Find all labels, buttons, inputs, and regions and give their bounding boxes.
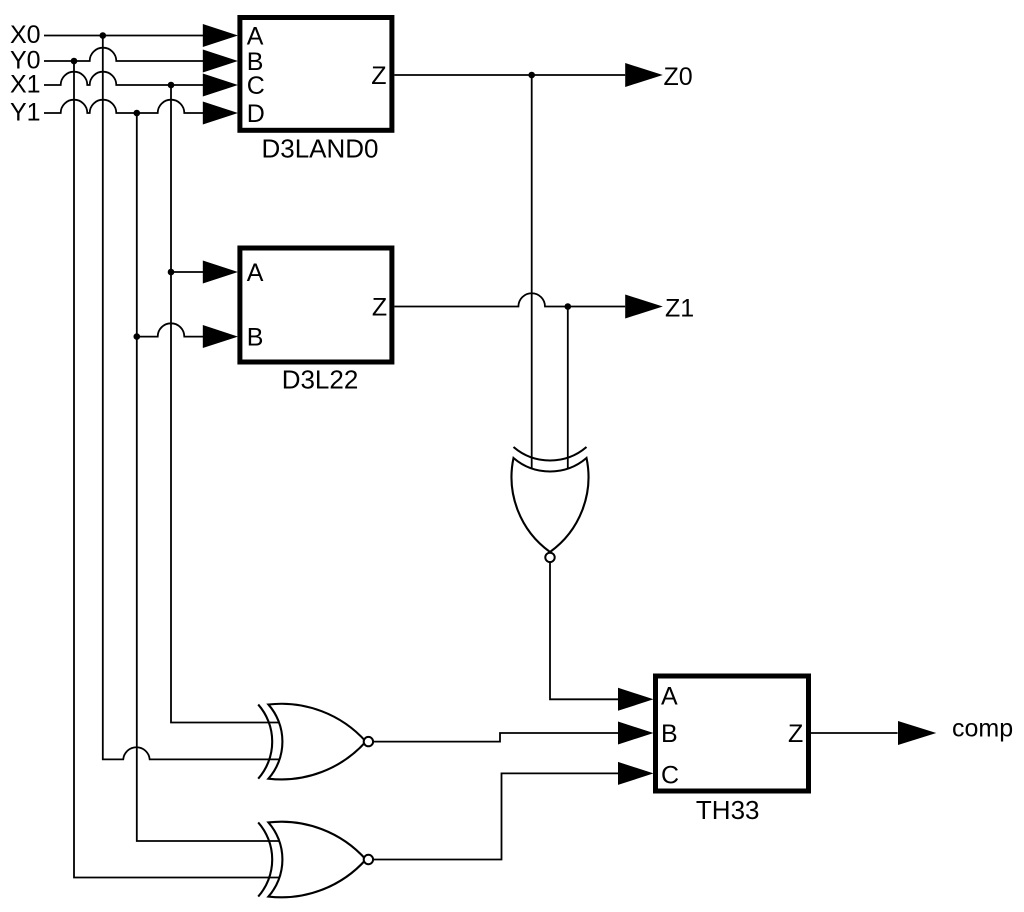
node X0 junction (100, 32, 107, 39)
wire D3L22 input B from Y1 vertical with hop over X1 vertical (137, 323, 203, 336)
node D3L22 A tap (168, 269, 175, 276)
gate U3 XNOR (middle, pointing down) (512, 447, 589, 562)
output arrow Z0 (625, 63, 663, 87)
node Y0 junction (71, 58, 78, 65)
svg-text:Z0: Z0 (664, 63, 693, 91)
output arrow Z1 (625, 295, 663, 319)
wire middle XNOR output down then right to TH33 input A (550, 563, 619, 700)
svg-text:X1: X1 (10, 71, 41, 99)
node D3L22 B tap (134, 333, 141, 340)
svg-text:A: A (247, 259, 264, 287)
svg-text:B: B (247, 324, 264, 352)
wire TH33 Z output to comp arrow (811, 732, 898, 734)
wire net Z1 from D3L22 Z to arrow with hop over Z0 vertical (394, 293, 625, 306)
svg-text:Z1: Z1 (665, 294, 694, 322)
svg-text:C: C (661, 762, 679, 790)
svg-text:D3L22: D3L22 (282, 364, 359, 394)
block U1 D3LAND0 (203, 18, 392, 164)
wire Y1 horizontal with hops over Y0, X0, X1 verticals (44, 100, 203, 113)
gate U4 XNOR (upper left, pointing right) (258, 704, 373, 780)
svg-text:X0: X0 (10, 21, 41, 49)
svg-text:Z: Z (788, 720, 803, 748)
wire X0 horizontal to input A (44, 35, 203, 37)
svg-text:TH33: TH33 (696, 795, 760, 825)
output arrow comp (898, 721, 936, 745)
svg-text:C: C (247, 72, 265, 100)
svg-text:D3LAND0: D3LAND0 (261, 134, 378, 164)
node Y1 junction (134, 110, 141, 117)
wire Y0 horizontal with hop over X0 vertical (44, 48, 203, 61)
node Z1 junction (565, 303, 572, 310)
wire lower XNOR output right then up then right to TH33 input C (374, 773, 619, 859)
node X1 junction (168, 82, 175, 89)
svg-text:Z: Z (372, 293, 387, 321)
wire X0 vertical drop then right into upper XNOR lower input with hop over Y1 vertical (103, 36, 283, 760)
wire upper XNOR output right with jog up to TH33 input B (374, 733, 619, 742)
wire Z1 vertical drop to middle XNOR right input (567, 307, 569, 472)
node Z0 junction (528, 72, 535, 79)
svg-text:A: A (661, 682, 678, 710)
wire X1 vertical drop then right into upper XNOR upper input (171, 85, 283, 723)
wire D3L22 input A from X1 vertical (171, 271, 203, 273)
wire Y0 vertical drop then right into lower XNOR lower input (74, 61, 283, 878)
block U2 D3L22 (203, 248, 392, 394)
svg-text:comp: comp (952, 715, 1013, 743)
block U5 TH33 (618, 676, 809, 825)
wire Z0 vertical drop to middle XNOR left input (531, 75, 533, 471)
svg-text:Y1: Y1 (10, 99, 41, 127)
svg-text:Z: Z (371, 62, 386, 90)
gate U6 XNOR (lower left, pointing right) (258, 822, 373, 898)
wire Y1 vertical drop then right into lower XNOR upper input (137, 113, 283, 841)
svg-text:D: D (247, 100, 265, 128)
wire X1 horizontal with hops over Y0 and X0 verticals (44, 72, 203, 85)
wire net Z0 from D3LAND0 Z to arrow (394, 74, 625, 76)
svg-text:B: B (661, 720, 678, 748)
svg-text:A: A (247, 22, 264, 50)
